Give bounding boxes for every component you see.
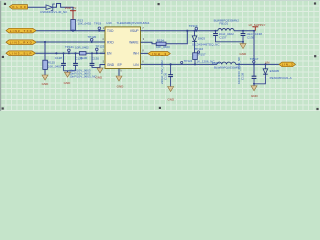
port INH_3 [148, 52, 170, 56]
port LIN_3 [279, 62, 296, 67]
inductor FB101 [214, 18, 240, 30]
capacitor C139 [237, 56, 256, 86]
pin numbers [102, 26, 144, 73]
svg-text:R157: R157 [198, 53, 206, 57]
gnd rail C128 C129 [64, 70, 76, 72]
svg-text:VDD_7V: VDD_7V [65, 6, 77, 10]
testpoint TP121 [65, 45, 74, 54]
svg-text:GND: GND [251, 94, 259, 98]
cap values text [69, 69, 97, 79]
testpoint TP124 [181, 59, 193, 64]
svg-text:GND: GND [42, 82, 50, 86]
svg-text:LIN3_SLP: LIN3_SLP [10, 51, 32, 55]
svg-text:C130: C130 [92, 56, 100, 60]
svg-text:LIN3_TXD: LIN3_TXD [10, 29, 33, 33]
node C136 [170, 63, 172, 65]
svg-text:TP121: TP121 [65, 45, 74, 49]
svg-text:TP124: TP124 [184, 59, 193, 63]
port LIN3_RXD [6, 40, 36, 45]
testpoint TP117 [250, 57, 259, 63]
testpoint TP116 [195, 47, 204, 53]
power port VDD_7V [65, 6, 77, 20]
svg-text:10nF/10V_0603_NC: 10nF/10V_0603_NC [69, 74, 97, 78]
diode D603 [192, 30, 220, 53]
svg-text:C137: C137 [219, 35, 227, 39]
ground C128/C129 [64, 71, 72, 85]
svg-text:C136: C136 [163, 72, 167, 80]
svg-text:C139: C139 [240, 72, 244, 80]
node WAKE loop top [186, 30, 188, 32]
diode PESD [263, 63, 292, 80]
diode D100 CS8JDD1V1-40_NC [40, 4, 68, 14]
capacitor C136 [160, 60, 173, 87]
capacitor C128 [55, 52, 66, 71]
svg-text:TP116: TP116 [195, 47, 204, 51]
node R13 row1 [72, 30, 74, 32]
svg-text:FB102: FB102 [212, 61, 221, 65]
capacitor C138 [241, 30, 263, 44]
svg-text:TP18: TP18 [94, 21, 102, 25]
svg-text:GND: GND [117, 85, 125, 89]
wire R125 drop [44, 42, 46, 60]
svg-text:LV_SUPPLY: LV_SUPPLY [249, 23, 266, 27]
ground IC pad [116, 76, 124, 89]
svg-text:GND: GND [239, 52, 247, 56]
wire R125 to gnd [44, 69, 46, 75]
node diode bottom rail [253, 83, 255, 85]
wire KL30 to diode [28, 6, 47, 8]
svg-text:TP123: TP123 [96, 44, 105, 48]
svg-text:FB101: FB101 [219, 22, 228, 26]
svg-text:EN: EN [107, 52, 112, 56]
svg-text:INH: INH [133, 52, 139, 56]
power port LV_SUPPLY [249, 23, 266, 31]
svg-text:10K_0603: 10K_0603 [156, 45, 170, 49]
svg-text:TXD: TXD [107, 29, 114, 33]
resistor R157 [193, 53, 216, 66]
svg-text:WAKE: WAKE [129, 40, 138, 44]
ground C137/C138 [239, 44, 247, 56]
svg-text:ESD05: ESD05 [270, 69, 280, 73]
IC bottom pin wire [118, 69, 120, 76]
wire row3 EN [36, 52, 106, 54]
svg-text:C138: C138 [247, 35, 255, 39]
svg-text:D603: D603 [198, 37, 206, 41]
svg-text:10K_0402: 10K_0402 [78, 22, 92, 26]
svg-text:RXD: RXD [107, 40, 114, 44]
node row4 LV [253, 63, 255, 65]
ground C136 [167, 87, 175, 102]
IC U10 TLE9261 [105, 21, 150, 68]
svg-text:LIN_3: LIN_3 [282, 63, 293, 67]
svg-text:U10: U10 [106, 21, 112, 25]
svg-text:10R_0402: 10R_0402 [75, 46, 89, 50]
capacitor C137 [213, 30, 243, 42]
svg-text:10K_0402: 10K_0402 [48, 65, 62, 69]
port LIN3_SLP [6, 51, 36, 56]
resistor R130 series [75, 46, 89, 61]
node row3 x56 [55, 52, 57, 54]
svg-text:EP: EP [118, 63, 122, 67]
capacitor C129 [73, 52, 83, 71]
wire diode bottom [254, 74, 265, 84]
inductor FB102 [212, 61, 241, 70]
wire row2 RXD [36, 41, 105, 43]
ground GND pin [95, 68, 103, 80]
wire row1 VSUP right [146, 30, 256, 32]
svg-text:VSUP: VSUP [130, 29, 139, 33]
resistor R154 [156, 39, 170, 50]
svg-text:LIN: LIN [265, 61, 270, 65]
svg-text:TLE9261BQXV33XUMA1: TLE9261BQXV33XUMA1 [117, 21, 150, 25]
svg-text:C129: C129 [75, 56, 83, 60]
pin stubs right [141, 31, 149, 65]
port LIN3_TXD [6, 28, 36, 33]
wire row4 LIN [146, 63, 280, 65]
port KL30 [9, 5, 27, 10]
wire WAKE loop [146, 31, 188, 44]
svg-text:LIN: LIN [134, 63, 140, 67]
wire LV vertical [253, 31, 255, 76]
testpoint TP119 [189, 24, 198, 32]
svg-text:LIN3_RXD: LIN3_RXD [10, 40, 33, 44]
ground LV [251, 86, 259, 98]
svg-text:GND: GND [167, 97, 175, 101]
svg-text:S-LD43449TDQ_NC: S-LD43449TDQ_NC [192, 43, 220, 47]
wire row1 TXD [36, 30, 105, 32]
node R125 top [44, 41, 46, 43]
resistor R13 [71, 19, 92, 31]
svg-text:GND: GND [107, 63, 115, 67]
svg-text:GND: GND [64, 81, 72, 85]
capacitor C130 [90, 52, 100, 67]
ground R125 [42, 75, 50, 86]
wire diode to VDD node [53, 4, 73, 20]
svg-text:C128: C128 [55, 56, 63, 60]
testpoint TP18 [94, 21, 102, 31]
testpoint TP123 [96, 44, 105, 54]
svg-text:GND: GND [95, 76, 103, 80]
svg-text:INH_3: INH_3 [152, 52, 166, 56]
pin stubs left [100, 31, 105, 65]
svg-text:CS8JDD1V1-40_NC: CS8JDD1V1-40_NC [40, 10, 68, 14]
resistor R125 pulldown [43, 60, 62, 69]
testpoint TP120 [87, 35, 96, 43]
wire GND pin [100, 65, 105, 69]
svg-text:PESD05V0U1-A: PESD05V0U1-A [270, 76, 292, 80]
